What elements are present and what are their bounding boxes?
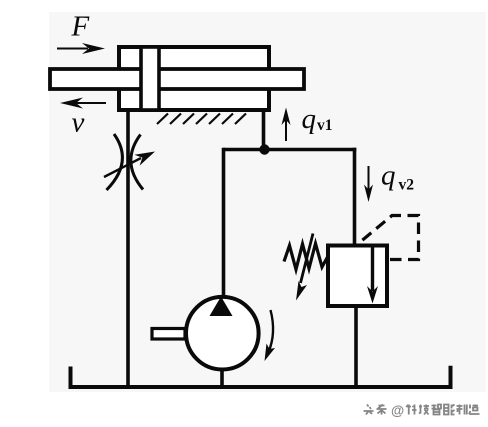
pump circle: [186, 297, 259, 370]
wire relief valve vertical: [353, 148, 357, 245]
wire junction horizontal: [224, 148, 357, 152]
pilot dashed line: [359, 216, 419, 260]
svg-text:v: v: [72, 107, 85, 139]
wire pump outlet to tank: [220, 369, 224, 387]
node junction dot: [259, 144, 269, 154]
svg-text:v1: v1: [317, 117, 333, 134]
arrow v: [60, 98, 106, 109]
pump rotation arrow: [265, 310, 276, 361]
svg-text:@: @: [391, 403, 404, 418]
spring adjust arrow: [296, 234, 313, 301]
arrow F: [57, 43, 105, 54]
svg-text:q: q: [302, 103, 317, 135]
wire relief valve to tank: [354, 306, 358, 387]
arrow qv1: [282, 108, 291, 142]
pump triangle: [210, 297, 233, 317]
wire pump inlet vertical: [222, 148, 226, 297]
watermark: [364, 405, 480, 415]
svg-text:q: q: [381, 160, 396, 192]
relief valve internal arrow: [367, 246, 378, 304]
throttle valve arcs: [107, 134, 123, 190]
wall hatching under cylinder: [157, 114, 246, 125]
tank line: [71, 366, 451, 387]
svg-text:v2: v2: [399, 177, 415, 194]
pump shaft: [152, 329, 185, 340]
throttle adjust arrow: [104, 152, 155, 178]
relief valve spring: [284, 244, 328, 270]
piston rod: [50, 69, 304, 89]
cylinder body: [119, 47, 269, 110]
wire left pipe: [126, 111, 130, 387]
wire right port: [262, 111, 266, 148]
arrow qv2: [364, 166, 373, 202]
svg-text:F: F: [71, 11, 90, 43]
relief valve body: [328, 246, 387, 307]
piston: [141, 47, 159, 110]
